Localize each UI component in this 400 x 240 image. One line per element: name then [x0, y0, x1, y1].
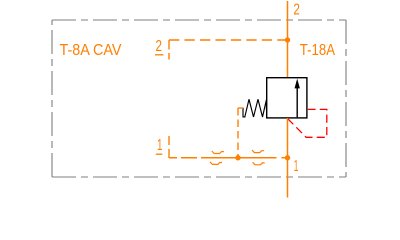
wire: dashed stub above port-1 tag corner	[168, 136, 170, 158]
svg-text:1: 1	[157, 137, 163, 154]
crossing jump mark 1 (upper tilde)	[212, 151, 224, 154]
cavity boundary T-8A (dashed gray outline)	[52, 20, 346, 177]
wire: dashed stub below port-2 tag corner	[168, 40, 170, 60]
crossing jump mark 1 (lower tilde)	[210, 162, 222, 165]
wire: port 2 vertical line (top)	[287, 1, 289, 78]
wire: valve bottom to port 1 vertical line	[287, 118, 289, 198]
wire: dashed branch at y=40 to port 2 tag	[169, 39, 288, 41]
underline of left label 2	[155, 54, 163, 56]
node: junction dot at spring drain	[235, 155, 240, 160]
underline of left label 1	[156, 153, 163, 155]
crossing jump mark 2 (lower tilde)	[253, 162, 265, 165]
wire: spring connector (orange)	[238, 107, 243, 109]
wire: bottom horizontal line y=158 segments	[169, 157, 288, 159]
pilot line (red dashed) from valve bottom to right side	[288, 109, 327, 137]
node: junction dot at port 1	[285, 155, 290, 160]
spring of relief valve	[243, 99, 266, 117]
flow arrow inside valve	[295, 79, 300, 118]
svg-text:1: 1	[294, 158, 299, 175]
wire: dashed drain line down from spring	[237, 108, 239, 158]
svg-text:T-8A CAV: T-8A CAV	[60, 42, 122, 59]
relief valve V1 body	[267, 78, 307, 118]
node: junction dot port 2 branch	[285, 37, 290, 42]
svg-text:2: 2	[293, 2, 300, 19]
svg-text:T-18A: T-18A	[300, 42, 335, 59]
crossing jump mark 2 (upper tilde)	[252, 150, 264, 153]
svg-text:2: 2	[156, 38, 163, 55]
